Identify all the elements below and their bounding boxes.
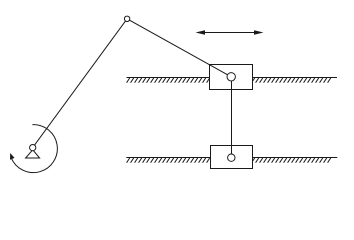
rotation arc arrowhead	[10, 153, 15, 160]
lower slider block	[211, 146, 253, 169]
upper slider block	[210, 65, 253, 90]
upper guide line left segment	[127, 77, 210, 79]
fixed pivot triangle support	[26, 150, 40, 158]
left arrowhead of double arrow	[196, 30, 206, 34]
lower guide line left segment	[126, 157, 210, 159]
crank link (pivot to pin A)	[33, 19, 127, 148]
lower guide left hatching	[127, 158, 210, 163]
lower slider pin circle	[228, 154, 235, 161]
vertical link (upper slider pin to lower slider pin)	[231, 77, 233, 158]
upper guide right hatching	[252, 78, 331, 83]
slider travel double arrow line	[198, 32, 261, 34]
upper guide left hatching	[127, 78, 210, 83]
coupler link (pin A to upper slider pin)	[127, 19, 231, 77]
rotation direction arc	[11, 125, 57, 173]
upper guide line right segment	[253, 77, 337, 79]
lower guide line right segment	[253, 157, 337, 159]
lower guide right hatching	[252, 158, 331, 163]
pin joint A circle	[124, 16, 129, 21]
right arrowhead of double arrow	[254, 30, 264, 34]
upper slider pin circle	[227, 73, 235, 81]
pivot pin circle	[30, 144, 36, 150]
